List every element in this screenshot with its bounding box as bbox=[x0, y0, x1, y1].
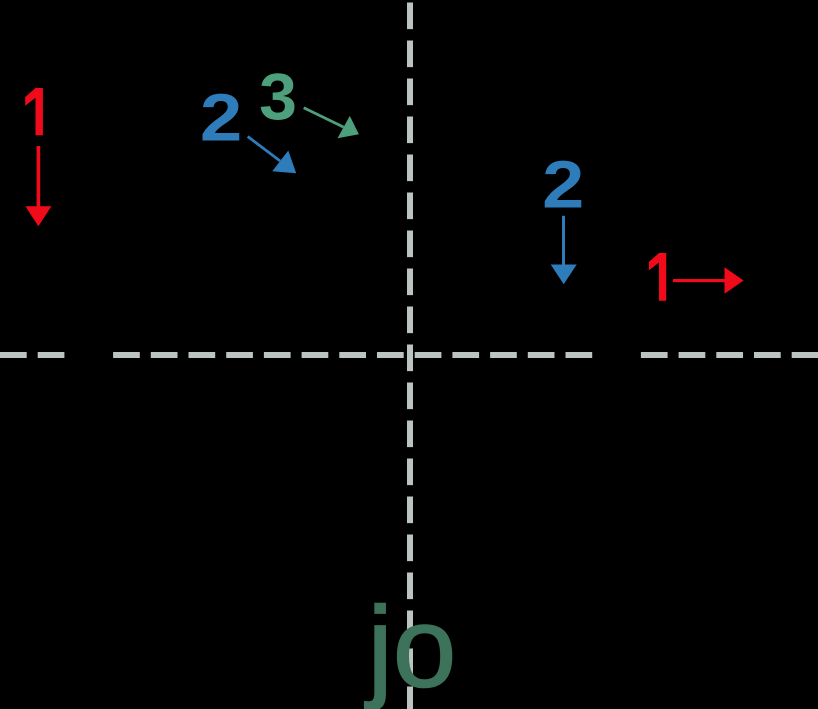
svg-text:3: 3 bbox=[259, 60, 297, 134]
arrow green diagonal bbox=[304, 108, 359, 139]
svg-text:jo: jo bbox=[365, 585, 457, 709]
label 2 blue left bbox=[200, 81, 242, 155]
wire horizontal dashed axis segment C bbox=[641, 352, 818, 358]
label 3 green bbox=[259, 60, 297, 134]
svg-text:2: 2 bbox=[200, 81, 242, 155]
label 2 blue right bbox=[542, 148, 584, 223]
wire horizontal dashed axis segment B bbox=[113, 352, 592, 358]
svg-text:2: 2 bbox=[542, 148, 584, 223]
label 1 red right bbox=[649, 253, 666, 301]
wire vertical dashed axis bbox=[407, 3, 413, 709]
arrow blue right down bbox=[551, 216, 577, 284]
arrow blue left diagonal bbox=[248, 137, 297, 174]
arrow red right horizontal bbox=[673, 267, 744, 293]
arrow red left down bbox=[25, 146, 51, 226]
wire horizontal dashed axis segment A bbox=[0, 352, 65, 358]
label 1 red left bbox=[25, 88, 43, 135]
